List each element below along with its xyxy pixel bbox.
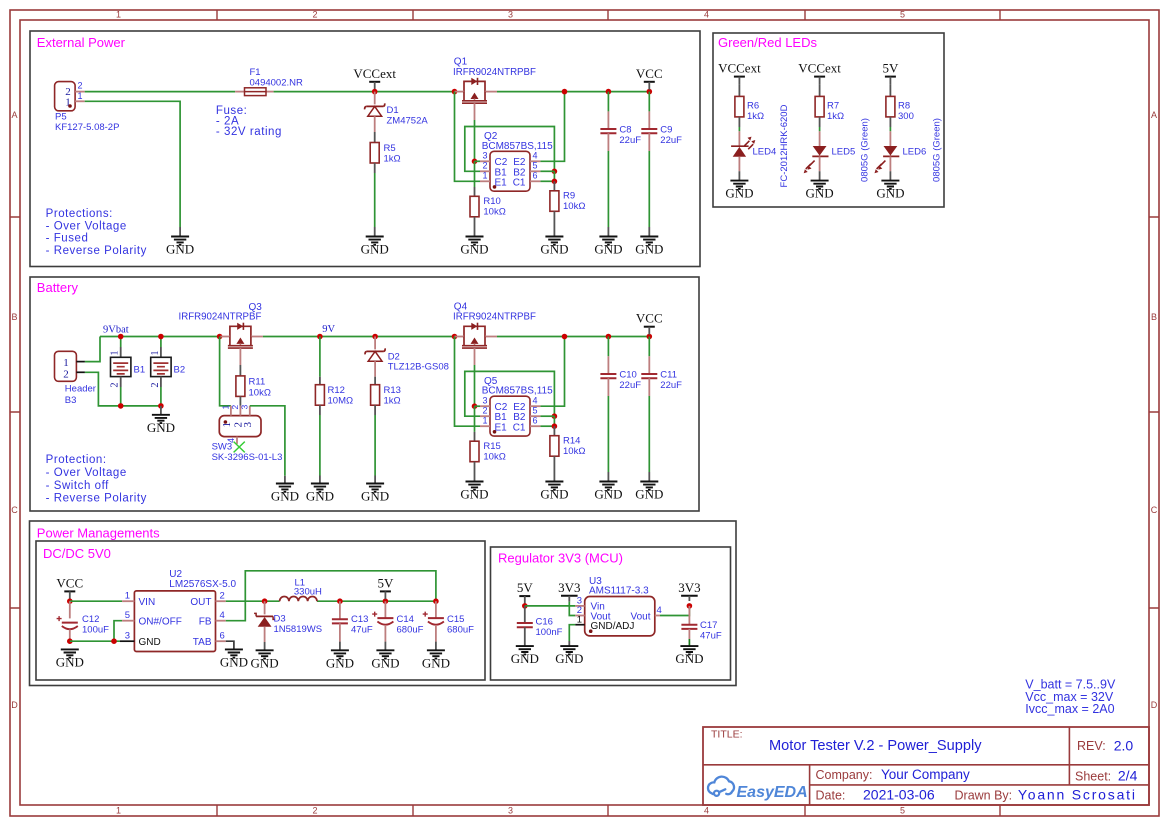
ground bbox=[251, 650, 279, 670]
wire C9 to ground bbox=[648, 133, 650, 151]
ground bbox=[371, 650, 399, 670]
wire B3 pin2 to battery negative rail bbox=[85, 372, 161, 406]
resistor R6 bbox=[735, 96, 764, 121]
svg-text:6: 6 bbox=[533, 416, 538, 426]
svg-text:LED4: LED4 bbox=[753, 147, 777, 158]
wire R7 to LED5 bbox=[819, 117, 821, 127]
svg-text:P5: P5 bbox=[55, 112, 67, 123]
svg-text:1: 1 bbox=[63, 357, 69, 369]
svg-text:- Fused: - Fused bbox=[46, 233, 89, 245]
svg-text:4: 4 bbox=[704, 10, 709, 20]
svg-text:GND: GND bbox=[166, 242, 194, 257]
wire Q2 pin4 to VCC rail bbox=[540, 92, 564, 162]
wire R12 to ground bbox=[319, 405, 321, 415]
wire Q5 pin6 to R14 bbox=[553, 426, 555, 436]
svg-text:6: 6 bbox=[220, 631, 225, 642]
svg-text:2: 2 bbox=[312, 806, 317, 816]
ground bbox=[725, 181, 753, 201]
node C12 bottom junction bbox=[67, 638, 73, 644]
transistor Q2 BCM857BS bbox=[480, 131, 553, 191]
wire 9Vbat to SW3 pin1 bbox=[220, 337, 231, 406]
wire Q4 gate to Q5 pin3 bbox=[474, 348, 476, 365]
connector P5 bbox=[55, 81, 120, 134]
EasyEDA logo bbox=[708, 777, 808, 801]
frame row letters bbox=[11, 110, 1158, 710]
svg-text:1kΩ: 1kΩ bbox=[747, 111, 764, 122]
svg-text:1: 1 bbox=[125, 591, 130, 602]
svg-text:1: 1 bbox=[110, 351, 121, 356]
node Q5 pin6 junction bbox=[552, 423, 558, 429]
wire to C9 bbox=[648, 92, 650, 112]
wire VCC to C12 bbox=[69, 601, 71, 618]
wire C13 to ground bbox=[339, 623, 341, 641]
pin link to R10 bbox=[474, 187, 476, 196]
svg-text:C17: C17 bbox=[700, 620, 717, 631]
capacitor C17 bbox=[681, 620, 721, 642]
ground bbox=[540, 482, 568, 502]
svg-text:47uF: 47uF bbox=[351, 625, 373, 636]
resistor R7 bbox=[815, 96, 844, 121]
svg-text:Date:: Date: bbox=[816, 789, 846, 803]
wire fuse to Q1 bbox=[274, 91, 455, 93]
diode D2 bbox=[365, 348, 449, 372]
wire Q3 drain to Q4 bbox=[263, 336, 455, 338]
ground bbox=[460, 482, 488, 502]
ground bbox=[806, 181, 834, 201]
svg-text:300: 300 bbox=[898, 111, 914, 122]
svg-text:10kΩ: 10kΩ bbox=[483, 207, 505, 218]
svg-text:2: 2 bbox=[63, 369, 69, 381]
wire P5 pin2 to fuse bbox=[85, 91, 235, 93]
svg-text:0494002.NR: 0494002.NR bbox=[250, 78, 303, 89]
svg-text:GND: GND bbox=[56, 655, 84, 670]
svg-text:GND: GND bbox=[540, 242, 568, 257]
node Q5 pin5 junction bbox=[552, 413, 558, 419]
svg-text:3: 3 bbox=[242, 422, 254, 428]
wire Q1 gate to Q2 pin3 bbox=[474, 103, 476, 120]
svg-text:5: 5 bbox=[125, 610, 130, 621]
note battery protection bbox=[46, 454, 147, 505]
svg-text:DC/DC 5V0: DC/DC 5V0 bbox=[43, 546, 111, 561]
svg-text:- Switch off: - Switch off bbox=[46, 480, 110, 492]
wire Q5 pin6 stub bbox=[540, 425, 554, 427]
transistor Q5 BCM857BS bbox=[480, 376, 553, 436]
svg-text:5V: 5V bbox=[377, 575, 394, 590]
svg-text:2: 2 bbox=[110, 383, 121, 388]
svg-text:- 32V rating: - 32V rating bbox=[216, 126, 282, 138]
wire to C10 bbox=[607, 337, 609, 357]
resistor R14 bbox=[550, 436, 586, 458]
section box Battery bbox=[30, 277, 699, 511]
svg-text:Protections:: Protections: bbox=[46, 208, 113, 220]
svg-text:0805G (Green): 0805G (Green) bbox=[859, 118, 870, 182]
net flag VCCext bbox=[718, 61, 761, 85]
svg-text:9V: 9V bbox=[322, 324, 335, 335]
svg-text:Green/Red LEDs: Green/Red LEDs bbox=[718, 35, 817, 50]
svg-text:1kΩ: 1kΩ bbox=[384, 396, 401, 407]
wire B3 pin1 to 9Vbat rail bbox=[85, 337, 100, 362]
svg-text:2: 2 bbox=[482, 161, 487, 171]
wire R9 to ground bbox=[553, 211, 555, 236]
svg-text:Regulator 3V3 (MCU): Regulator 3V3 (MCU) bbox=[498, 551, 623, 566]
wire to R12 bbox=[319, 337, 321, 377]
svg-text:VCC: VCC bbox=[636, 311, 663, 326]
wire B2 to ground bbox=[160, 406, 162, 415]
node Q3 source junction bbox=[217, 334, 223, 340]
wire R5 to ground bbox=[374, 163, 376, 173]
wire D3 to ground bbox=[264, 627, 266, 642]
svg-text:1: 1 bbox=[482, 171, 487, 181]
svg-text:5: 5 bbox=[533, 161, 538, 171]
svg-text:2: 2 bbox=[482, 406, 487, 416]
svg-text:C: C bbox=[11, 505, 18, 515]
node C13 junction bbox=[337, 598, 343, 604]
svg-text:3: 3 bbox=[482, 396, 487, 406]
svg-text:0805G (Green): 0805G (Green) bbox=[932, 118, 943, 182]
svg-text:GND: GND bbox=[511, 651, 539, 666]
wire SW3 pin3 to ground bbox=[250, 406, 285, 476]
wire to C16 bbox=[524, 606, 526, 623]
section box Power Managements bbox=[30, 521, 737, 686]
svg-text:LED6: LED6 bbox=[903, 147, 927, 158]
svg-text:R12: R12 bbox=[328, 385, 345, 396]
svg-text:22uF: 22uF bbox=[619, 380, 641, 391]
wire C12 to ground rail bbox=[69, 630, 71, 642]
svg-text:Company:: Company: bbox=[816, 768, 873, 782]
svg-text:F1: F1 bbox=[250, 67, 261, 78]
wire Q2 pin6 to R9 bbox=[553, 181, 555, 191]
note voltage limits bbox=[1025, 677, 1116, 716]
node Q4 source junction bbox=[452, 334, 458, 340]
wire to C14 bbox=[384, 601, 386, 618]
svg-text:R10: R10 bbox=[483, 196, 500, 207]
pin VCCext to R7 bbox=[819, 84, 821, 96]
wire Q5 pin1 to Q4 source bbox=[455, 337, 481, 427]
svg-text:4: 4 bbox=[533, 396, 538, 406]
wire to D3 bbox=[264, 601, 266, 614]
svg-text:R15: R15 bbox=[483, 441, 500, 452]
diode D3 schottky bbox=[254, 613, 322, 635]
svg-text:VCCext: VCCext bbox=[718, 61, 761, 76]
svg-text:GND: GND bbox=[675, 651, 703, 666]
wire Q3 gate to R11 bbox=[239, 348, 241, 365]
svg-text:OUT: OUT bbox=[190, 597, 211, 608]
svg-text:EasyEDA: EasyEDA bbox=[737, 784, 808, 801]
svg-text:KF127-5.08-2P: KF127-5.08-2P bbox=[55, 122, 119, 133]
svg-text:Motor Tester V.2 - Power_Suppl: Motor Tester V.2 - Power_Supply bbox=[769, 738, 982, 754]
wire 9Vbat rail bbox=[100, 336, 220, 338]
svg-text:2: 2 bbox=[312, 10, 317, 20]
svg-text:1kΩ: 1kΩ bbox=[384, 154, 401, 165]
ground bbox=[511, 646, 539, 666]
wire Q2 pin5 stub bbox=[540, 170, 554, 172]
svg-text:3: 3 bbox=[240, 405, 250, 410]
svg-text:- Over Voltage: - Over Voltage bbox=[46, 220, 127, 232]
node 5V reg junction bbox=[522, 603, 528, 609]
node ON-GND junction bbox=[111, 638, 117, 644]
ground bbox=[271, 484, 299, 504]
resistor R12 bbox=[315, 385, 353, 407]
svg-text:4: 4 bbox=[220, 610, 225, 621]
node C15 junction bbox=[433, 598, 439, 604]
wire C11 to ground bbox=[648, 378, 650, 396]
wire to C15 bbox=[435, 601, 437, 618]
svg-text:GND: GND bbox=[635, 242, 663, 257]
wire C10 to ground bbox=[607, 378, 609, 396]
svg-text:3: 3 bbox=[508, 10, 513, 20]
svg-text:680uF: 680uF bbox=[447, 625, 474, 636]
svg-text:100nF: 100nF bbox=[536, 627, 563, 638]
svg-text:10MΩ: 10MΩ bbox=[328, 396, 354, 407]
svg-text:C13: C13 bbox=[351, 614, 368, 625]
svg-text:1N5819WS: 1N5819WS bbox=[274, 624, 323, 635]
node D2 junction bbox=[372, 334, 378, 340]
wire U2 ON to ground rail bbox=[114, 621, 122, 642]
net flag 5V bbox=[517, 580, 534, 604]
wire R10 to ground bbox=[474, 217, 476, 237]
resistor R10 bbox=[470, 196, 506, 218]
svg-text:C9: C9 bbox=[660, 125, 672, 136]
svg-text:R11: R11 bbox=[249, 377, 266, 388]
svg-text:100uF: 100uF bbox=[82, 625, 109, 636]
svg-text:LED5: LED5 bbox=[832, 147, 856, 158]
node 3V3 out junction bbox=[687, 603, 693, 609]
svg-text:- Reverse Polarity: - Reverse Polarity bbox=[46, 245, 147, 257]
svg-text:10kΩ: 10kΩ bbox=[483, 452, 505, 463]
ground bbox=[594, 237, 622, 257]
node B2 top junction bbox=[158, 334, 164, 340]
svg-text:9Vbat: 9Vbat bbox=[103, 324, 129, 335]
svg-text:2021-03-06: 2021-03-06 bbox=[863, 787, 935, 803]
node B1 bottom junction bbox=[118, 403, 124, 409]
svg-text:BCM857BS,115: BCM857BS,115 bbox=[482, 141, 553, 152]
ground bbox=[540, 237, 568, 257]
resistor R8 bbox=[886, 96, 914, 121]
svg-text:A: A bbox=[1151, 110, 1157, 120]
wire U3 GND pin to ground bbox=[569, 625, 575, 641]
battery B1 bbox=[110, 337, 145, 406]
switch SW3 bbox=[212, 405, 283, 463]
ground bbox=[635, 237, 663, 257]
fuse F1 bbox=[235, 67, 303, 96]
LED LED4 bbox=[731, 137, 755, 157]
pin D2 to R13 bbox=[374, 361, 376, 377]
svg-text:1: 1 bbox=[150, 351, 161, 356]
svg-text:GND: GND bbox=[139, 637, 161, 648]
svg-text:GND: GND bbox=[460, 242, 488, 257]
svg-text:GND: GND bbox=[361, 489, 389, 504]
svg-text:1: 1 bbox=[482, 416, 487, 426]
wire Q2 pin6 stub bbox=[540, 180, 554, 182]
wire Q5 pin5 stub bbox=[540, 415, 554, 417]
wire C16 to ground bbox=[524, 627, 526, 646]
svg-text:5V: 5V bbox=[882, 61, 899, 76]
ground bbox=[147, 415, 175, 435]
svg-text:3V3: 3V3 bbox=[558, 580, 580, 595]
wire C14 to ground bbox=[384, 625, 386, 642]
net flag VCC bbox=[56, 575, 83, 599]
diode D1 bbox=[365, 103, 429, 126]
capacitor C13 bbox=[332, 614, 373, 636]
pin link to R15 bbox=[474, 432, 476, 441]
svg-text:5: 5 bbox=[900, 10, 905, 20]
net flag 5V bbox=[377, 575, 394, 599]
svg-text:SK-3296S-01-L3: SK-3296S-01-L3 bbox=[212, 452, 283, 463]
svg-text:Q1: Q1 bbox=[454, 57, 468, 68]
wire U3 Vout to 3V3 out bbox=[660, 606, 689, 616]
capacitor C8 bbox=[600, 125, 641, 147]
wire R8 to LED6 bbox=[889, 117, 891, 127]
node Q5 pin3 junction bbox=[472, 403, 478, 409]
wire Q2 pin1 to Q1 source bbox=[455, 92, 481, 182]
capacitor C11 bbox=[641, 370, 682, 392]
wire C17 to ground bbox=[688, 629, 690, 639]
svg-text:C: C bbox=[1151, 505, 1158, 515]
wire Q2 pin3 stub link bbox=[475, 160, 481, 162]
net flag VCCext bbox=[353, 66, 396, 90]
pin 5V to R8 bbox=[889, 84, 891, 96]
transistor Q4 bbox=[455, 323, 498, 348]
svg-text:GND: GND bbox=[635, 487, 663, 502]
svg-text:4: 4 bbox=[657, 605, 662, 616]
wire R14 to ground bbox=[553, 456, 555, 481]
transistor Q3 bbox=[220, 323, 263, 348]
svg-text:2: 2 bbox=[78, 81, 83, 91]
svg-text:IRFR9024NTRPBF: IRFR9024NTRPBF bbox=[453, 311, 536, 322]
svg-text:10kΩ: 10kΩ bbox=[249, 388, 271, 399]
title block frame bbox=[703, 727, 1149, 805]
svg-text:330uH: 330uH bbox=[294, 587, 322, 598]
svg-text:GND: GND bbox=[806, 186, 834, 201]
wire to C8 bbox=[607, 92, 609, 112]
section box DC/DC 5V0 bbox=[36, 541, 485, 680]
wire R6 to LED4 bbox=[738, 117, 740, 127]
svg-text:2/4: 2/4 bbox=[1118, 768, 1138, 784]
svg-text:Power Managements: Power Managements bbox=[37, 525, 160, 540]
svg-text:External Power: External Power bbox=[37, 35, 126, 50]
note protections bbox=[46, 208, 147, 257]
svg-text:22uF: 22uF bbox=[660, 380, 682, 391]
svg-text:VIN: VIN bbox=[139, 597, 156, 608]
node B2 bottom junction bbox=[158, 403, 164, 409]
svg-text:VCCext: VCCext bbox=[353, 66, 396, 81]
node C8 junction bbox=[606, 89, 612, 95]
wire C15 to ground bbox=[435, 625, 437, 642]
svg-text:ON#/OFF: ON#/OFF bbox=[139, 616, 182, 627]
wire U2 TAB to ground bbox=[226, 641, 234, 649]
LED LED5 bbox=[804, 146, 829, 173]
svg-text:6: 6 bbox=[533, 171, 538, 181]
svg-text:GND: GND bbox=[147, 420, 175, 435]
ground bbox=[635, 482, 663, 502]
svg-text:2.0: 2.0 bbox=[1114, 738, 1134, 754]
resistor R11 bbox=[236, 376, 271, 399]
svg-text:BCM857BS,115: BCM857BS,115 bbox=[482, 386, 553, 397]
svg-text:LM2576SX-5.0: LM2576SX-5.0 bbox=[169, 579, 236, 590]
svg-text:TITLE:: TITLE: bbox=[711, 729, 743, 741]
pin R11 to SW3 pin2 bbox=[239, 396, 241, 405]
node B1 top junction bbox=[118, 334, 124, 340]
capacitor C9 bbox=[641, 125, 682, 147]
svg-text:10kΩ: 10kΩ bbox=[563, 446, 585, 457]
svg-text:GND: GND bbox=[460, 487, 488, 502]
wire to C17 bbox=[688, 606, 690, 625]
svg-text:Sheet:: Sheet: bbox=[1075, 770, 1111, 784]
svg-text:GND: GND bbox=[422, 655, 450, 670]
net flag VCCext bbox=[798, 61, 841, 85]
svg-text:1: 1 bbox=[116, 10, 121, 20]
svg-text:GND: GND bbox=[361, 242, 389, 257]
svg-text:R5: R5 bbox=[384, 143, 396, 154]
svg-text:GND: GND bbox=[876, 186, 904, 201]
ground bbox=[675, 646, 703, 666]
ground bbox=[876, 181, 904, 201]
ground bbox=[220, 649, 248, 669]
svg-text:C16: C16 bbox=[536, 617, 553, 628]
svg-text:2: 2 bbox=[220, 591, 225, 602]
net flag 3V3 right bbox=[678, 580, 700, 601]
svg-text:GND: GND bbox=[220, 655, 248, 670]
svg-text:GND: GND bbox=[725, 186, 753, 201]
svg-text:3: 3 bbox=[508, 806, 513, 816]
node E2 riser junction battery bbox=[562, 334, 568, 340]
node VCC input junction bbox=[67, 598, 73, 604]
ground bbox=[555, 646, 583, 666]
node E2 riser junction bbox=[562, 89, 568, 95]
svg-text:D: D bbox=[1151, 700, 1158, 710]
svg-text:Your Company: Your Company bbox=[881, 767, 970, 782]
svg-text:2: 2 bbox=[150, 383, 161, 388]
section box Green/Red LEDs bbox=[713, 33, 944, 207]
note fuse rating bbox=[216, 105, 282, 138]
svg-text:4: 4 bbox=[704, 806, 709, 816]
capacitor C10 bbox=[600, 370, 641, 392]
svg-text:1: 1 bbox=[78, 91, 83, 101]
ground bbox=[166, 237, 194, 257]
svg-text:- Over Voltage: - Over Voltage bbox=[46, 467, 127, 479]
wire 3V3 to U3 Vout bbox=[569, 602, 575, 616]
node VCCext junction bbox=[372, 89, 378, 95]
svg-text:GND: GND bbox=[306, 489, 334, 504]
net flag VCC bbox=[636, 66, 663, 90]
svg-text:GND: GND bbox=[251, 655, 279, 670]
wire U2 OUT to L1 bbox=[226, 600, 280, 602]
svg-text:GND: GND bbox=[271, 489, 299, 504]
svg-text:1: 1 bbox=[221, 405, 231, 410]
svg-text:1: 1 bbox=[221, 422, 233, 428]
svg-text:3: 3 bbox=[125, 631, 130, 642]
svg-text:GND: GND bbox=[326, 655, 354, 670]
svg-text:R9: R9 bbox=[563, 191, 575, 202]
svg-text:22uF: 22uF bbox=[660, 135, 682, 146]
svg-text:Header: Header bbox=[65, 384, 96, 395]
svg-text:C10: C10 bbox=[619, 370, 636, 381]
svg-text:VCCext: VCCext bbox=[798, 61, 841, 76]
svg-text:1kΩ: 1kΩ bbox=[827, 111, 844, 122]
svg-text:VCC: VCC bbox=[636, 66, 663, 81]
wire LED6 to ground bbox=[889, 156, 891, 171]
ground bbox=[56, 649, 84, 669]
svg-text:GND: GND bbox=[594, 242, 622, 257]
wire to C13 bbox=[339, 601, 341, 619]
svg-text:TLZ12B-GS08: TLZ12B-GS08 bbox=[388, 362, 449, 373]
svg-text:C1: C1 bbox=[513, 177, 526, 188]
resistor R9 bbox=[550, 191, 586, 213]
battery B2 bbox=[150, 337, 185, 406]
svg-text:B2: B2 bbox=[174, 365, 186, 376]
wire Q4 drain to VCC bbox=[497, 336, 649, 338]
node C9 junction bbox=[647, 89, 653, 95]
